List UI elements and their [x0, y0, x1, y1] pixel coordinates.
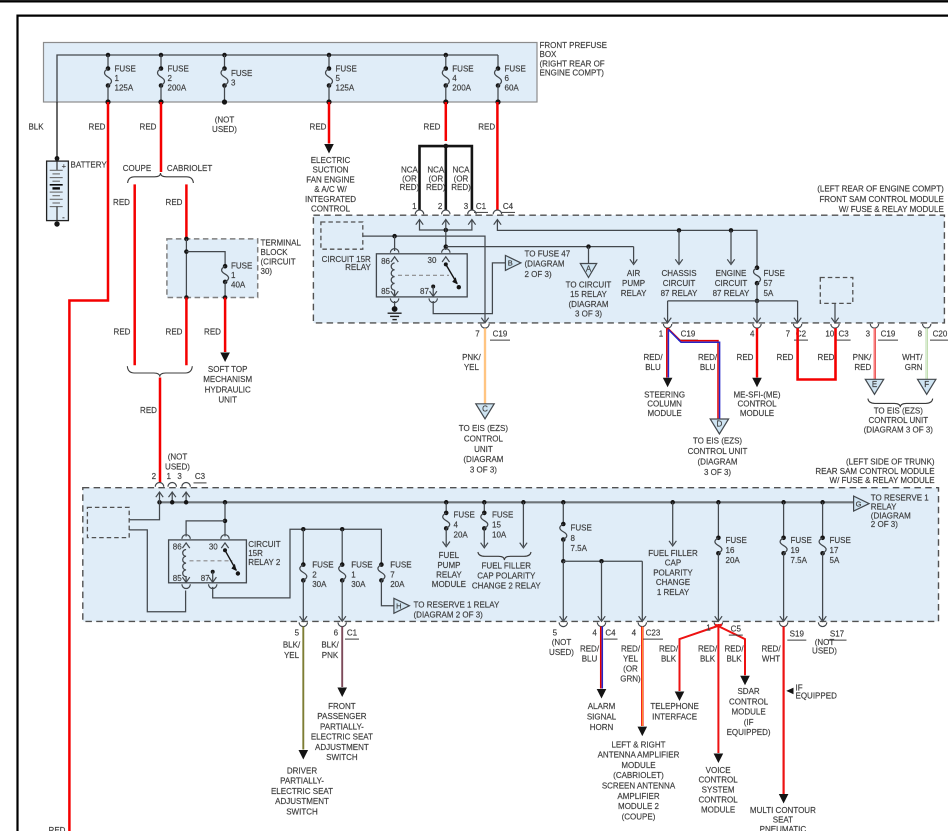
fuse F1 40A terminal block — [223, 264, 228, 269]
svg-text:FUSE: FUSE — [492, 510, 513, 519]
wire output bus to pins — [668, 300, 798, 302]
svg-text:1: 1 — [412, 202, 417, 211]
svg-text:USED): USED) — [549, 648, 574, 657]
svg-text:PARTIALLY-: PARTIALLY- — [320, 722, 364, 731]
svg-text:RED/: RED/ — [761, 644, 781, 653]
svg-text:SIGNAL: SIGNAL — [587, 712, 617, 721]
fuse F17 5A rear — [822, 502, 824, 538]
svg-text:(LEFT SIDE OF TRUNK): (LEFT SIDE OF TRUNK) — [846, 458, 935, 467]
wire RED to soft top unit — [224, 298, 227, 353]
svg-text:CAP: CAP — [665, 559, 681, 568]
node terminal block input — [184, 237, 189, 242]
svg-text:HYDRAULIC: HYDRAULIC — [205, 385, 251, 394]
svg-text:(COUPE): (COUPE) — [622, 812, 656, 821]
wire fuse15 to fuel filler relay — [483, 528, 485, 546]
wire WHT/GRN to triangle F — [926, 328, 928, 379]
svg-text:FUSE: FUSE — [231, 69, 252, 78]
svg-text:CONTROL: CONTROL — [464, 434, 504, 443]
svg-text:3: 3 — [866, 330, 871, 339]
svg-text:(IF: (IF — [744, 718, 754, 727]
svg-text:RED: RED — [777, 353, 794, 362]
triangle C — [476, 404, 494, 419]
svg-text:15 RELAY: 15 RELAY — [570, 290, 607, 299]
svg-text:(DIAGRAM: (DIAGRAM — [525, 260, 565, 269]
svg-text:200A: 200A — [452, 84, 471, 93]
svg-text:USED): USED) — [212, 125, 237, 134]
svg-text:RED): RED) — [451, 183, 471, 192]
svg-text:(CIRCUIT: (CIRCUIT — [261, 258, 296, 267]
svg-text:EQUIPPED: EQUIPPED — [796, 692, 838, 701]
svg-text:G: G — [856, 499, 862, 508]
svg-text:SYSTEM: SYSTEM — [702, 786, 735, 795]
fuse F1 front prefuse box — [105, 53, 136, 105]
svg-text:10A: 10A — [492, 530, 507, 539]
arrow SDAR — [740, 676, 750, 686]
svg-text:3: 3 — [464, 202, 469, 211]
svg-text:8: 8 — [571, 534, 576, 543]
svg-text:LEFT & RIGHT: LEFT & RIGHT — [611, 740, 665, 749]
relay link (dashed) — [398, 274, 449, 276]
connector exit rear SAM — [559, 622, 567, 626]
svg-text:W/ FUSE & RELAY MODULE: W/ FUSE & RELAY MODULE — [839, 205, 944, 214]
svg-text:ME-SFI-(ME): ME-SFI-(ME) — [733, 391, 780, 400]
svg-text:86: 86 — [381, 257, 390, 266]
connector exit front SAM — [663, 324, 671, 328]
svg-text:MULTI CONTOUR: MULTI CONTOUR — [750, 806, 816, 815]
svg-text:7: 7 — [786, 330, 791, 339]
wire RED fuse1 to bottom of page — [69, 102, 108, 831]
svg-text:1 RELAY: 1 RELAY — [657, 588, 690, 597]
svg-text:MODULE: MODULE — [701, 805, 735, 814]
brace coupe/cabriolet merge — [127, 366, 192, 377]
wire pin2 to relay 30 — [445, 220, 447, 251]
svg-text:BLK/: BLK/ — [283, 641, 301, 650]
svg-text:MODULE: MODULE — [621, 761, 655, 770]
svg-text:RED/: RED/ — [698, 353, 718, 362]
main bus rear SAM — [160, 501, 854, 503]
svg-text:D: D — [717, 420, 723, 429]
svg-text:-: - — [62, 213, 65, 222]
svg-text:(NOT: (NOT — [552, 638, 572, 647]
svg-text:RED: RED — [854, 363, 871, 372]
fuse F16 20A rear — [717, 502, 719, 538]
svg-text:200A: 200A — [168, 84, 187, 93]
relay placeholder (dashed) rear SAM — [87, 507, 129, 537]
svg-text:30A: 30A — [351, 580, 366, 589]
svg-text:7: 7 — [475, 330, 480, 339]
svg-text:RELAY 2: RELAY 2 — [248, 558, 281, 567]
svg-text:MODULE: MODULE — [731, 708, 765, 717]
relay2 link (dashed) — [190, 560, 233, 562]
wire pin4 C23 drop — [641, 561, 643, 620]
wire relay 85 to ground — [394, 290, 396, 297]
svg-text:RED: RED — [114, 327, 131, 336]
svg-text:5: 5 — [295, 629, 300, 638]
svg-text:AMPLIFIER: AMPLIFIER — [617, 792, 659, 801]
svg-text:SEAT: SEAT — [773, 816, 793, 825]
svg-text:ADJUSTMENT: ADJUSTMENT — [275, 797, 329, 806]
connector entry front SAM — [415, 210, 423, 214]
svg-text:(NOT: (NOT — [815, 638, 835, 647]
wire relay2 86 feed — [186, 521, 225, 537]
svg-text:3: 3 — [231, 79, 236, 88]
svg-text:87: 87 — [420, 287, 429, 296]
wire relay2 85 exit — [185, 576, 187, 583]
svg-text:C19: C19 — [493, 330, 508, 339]
wire pin4 C4 drop — [601, 561, 603, 620]
svg-text:RELAY: RELAY — [871, 503, 897, 512]
relay2 coil — [183, 550, 186, 577]
svg-text:CONTROL: CONTROL — [311, 205, 351, 214]
wire pin10 C3 drop — [834, 303, 836, 321]
svg-text:GRN: GRN — [905, 363, 923, 372]
svg-text:& A/C W/: & A/C W/ — [314, 185, 347, 194]
fuse F3 front prefuse box — [221, 53, 252, 105]
relay U1 circuit 15R — [376, 254, 467, 297]
svg-text:RED: RED — [478, 123, 495, 132]
svg-text:RELAY: RELAY — [436, 571, 462, 580]
svg-text:FAN ENGINE: FAN ENGINE — [306, 175, 354, 184]
svg-text:CONTROL: CONTROL — [699, 776, 739, 785]
svg-text:C20: C20 — [933, 330, 948, 339]
wire pin7 C2 drop — [797, 301, 799, 322]
svg-text:PARTIALLY-: PARTIALLY- — [280, 777, 324, 786]
svg-text:6: 6 — [505, 74, 510, 83]
svg-text:ELECTRIC SEAT: ELECTRIC SEAT — [271, 787, 333, 796]
svg-text:FUSE: FUSE — [336, 65, 357, 74]
svg-text:(OR: (OR — [428, 174, 443, 183]
fuse F57 5A — [755, 265, 760, 270]
connector entry rear SAM — [168, 483, 176, 487]
wire BLK battery feed — [56, 102, 58, 158]
svg-text:NCA: NCA — [453, 166, 471, 175]
battery B1 — [47, 156, 69, 227]
svg-text:+: + — [62, 161, 67, 170]
relay switch — [444, 262, 448, 266]
relay coil — [391, 263, 394, 290]
svg-text:5A: 5A — [830, 556, 840, 565]
wire PNK/RED to triangle E — [873, 328, 875, 379]
wire chassis circuit 87 relay drop — [678, 230, 680, 263]
svg-text:40A: 40A — [231, 280, 246, 289]
svg-text:BLK: BLK — [28, 123, 44, 132]
svg-text:5A: 5A — [764, 289, 774, 298]
fuse F8 7.5A rear — [562, 502, 564, 524]
fuse F6 front prefuse box — [495, 55, 526, 105]
triangle E — [865, 379, 883, 394]
svg-text:BLOCK: BLOCK — [261, 248, 289, 257]
svg-text:8: 8 — [918, 330, 923, 339]
svg-text:NCA: NCA — [401, 166, 419, 175]
wire pin1 C19 drop — [667, 301, 669, 322]
svg-text:RED/: RED/ — [698, 644, 718, 653]
svg-text:BLK: BLK — [700, 655, 716, 664]
wire terminal block internal — [185, 239, 187, 298]
svg-text:SUCTION: SUCTION — [313, 166, 349, 175]
svg-text:CONTROL: CONTROL — [699, 796, 739, 805]
relay placeholder (dashed) front SAM — [820, 278, 853, 304]
svg-text:AIR: AIR — [627, 269, 641, 278]
svg-text:MODULE: MODULE — [647, 409, 681, 418]
svg-text:(NOT: (NOT — [215, 116, 235, 125]
brace coupe/cabriolet split — [128, 173, 194, 183]
connector exit rear SAM — [779, 622, 787, 626]
svg-text:20A: 20A — [726, 556, 741, 565]
svg-text:FUSE: FUSE — [351, 561, 372, 570]
wire 86 entry — [394, 236, 396, 251]
connector exit front SAM — [793, 324, 801, 328]
svg-text:PUMP: PUMP — [437, 561, 460, 570]
svg-text:ALARM: ALARM — [588, 702, 616, 711]
svg-text:YEL: YEL — [623, 655, 639, 664]
triangle D — [710, 419, 728, 434]
svg-text:5: 5 — [553, 629, 558, 638]
fuse F4 front prefuse box — [442, 53, 473, 105]
wire fuse1 to pin6 — [341, 580, 343, 620]
front prefuse box — [44, 43, 538, 103]
wire to circuit15/air pump bus — [446, 246, 634, 248]
svg-text:4: 4 — [454, 521, 459, 530]
svg-text:SWITCH: SWITCH — [286, 807, 318, 816]
svg-text:ENGINE: ENGINE — [716, 269, 747, 278]
svg-text:(DIAGRAM 2 OF 3): (DIAGRAM 2 OF 3) — [414, 611, 484, 620]
svg-text:60A: 60A — [505, 84, 520, 93]
svg-text:(DIAGRAM: (DIAGRAM — [569, 300, 609, 309]
svg-text:TERMINAL: TERMINAL — [261, 239, 302, 248]
svg-text:CIRCUIT: CIRCUIT — [663, 279, 696, 288]
svg-text:MODULE: MODULE — [432, 580, 466, 589]
svg-text:RED: RED — [737, 353, 754, 362]
terminal block (circuit 30) box — [167, 239, 258, 298]
connector exit rear SAM — [714, 622, 722, 626]
wire RED coupe branch — [133, 184, 136, 365]
svg-text:20A: 20A — [390, 580, 405, 589]
svg-text:125A: 125A — [115, 84, 134, 93]
svg-text:CONTROL: CONTROL — [737, 400, 777, 409]
svg-text:(DIAGRAM: (DIAGRAM — [871, 511, 911, 520]
wire C4 bus — [497, 220, 757, 268]
svg-text:FUSE: FUSE — [454, 510, 475, 519]
svg-text:ELECTRIC: ELECTRIC — [311, 156, 351, 165]
svg-text:WHT: WHT — [762, 655, 780, 664]
svg-text:RED/: RED/ — [643, 353, 663, 362]
svg-text:YEL: YEL — [464, 363, 480, 372]
svg-text:CONTROL: CONTROL — [729, 697, 769, 706]
wire pin5 not used drop — [562, 561, 564, 620]
svg-text:86: 86 — [173, 542, 182, 551]
svg-text:MODULE 2: MODULE 2 — [618, 802, 659, 811]
svg-text:RED/: RED/ — [724, 644, 744, 653]
svg-text:POLARITY: POLARITY — [653, 568, 693, 577]
svg-text:ELECTRIC SEAT: ELECTRIC SEAT — [311, 733, 373, 742]
svg-text:7.5A: 7.5A — [791, 556, 808, 565]
svg-text:2 OF 3): 2 OF 3) — [525, 270, 552, 279]
triangle H — [394, 598, 410, 613]
svg-text:C1: C1 — [476, 202, 487, 211]
svg-text:FRONT PREFUSE: FRONT PREFUSE — [540, 41, 607, 50]
svg-text:C19: C19 — [881, 330, 896, 339]
svg-text:DRIVER: DRIVER — [287, 767, 317, 776]
svg-text:MODULE: MODULE — [740, 409, 774, 418]
top rule — [0, 0, 948, 2]
svg-text:1: 1 — [706, 624, 711, 633]
svg-text:FUSE: FUSE — [571, 524, 592, 533]
connector entry front SAM — [442, 210, 450, 214]
svg-text:TO EIS (EZS): TO EIS (EZS) — [874, 407, 924, 416]
svg-text:MECHANISM: MECHANISM — [203, 375, 252, 384]
svg-text:C3: C3 — [838, 330, 849, 339]
svg-text:BLU: BLU — [700, 363, 716, 372]
svg-text:C19: C19 — [681, 330, 696, 339]
svg-text:20A: 20A — [454, 530, 469, 539]
wire RED/YEL to antenna amplifier — [641, 627, 643, 727]
svg-text:CHANGE: CHANGE — [656, 578, 690, 587]
wire fuse2 drop — [302, 529, 304, 564]
svg-text:TO EIS (EZS): TO EIS (EZS) — [459, 424, 509, 433]
wire fuel filler cap polarity change 1 relay — [672, 502, 674, 544]
connector entry front SAM — [468, 210, 476, 214]
svg-text:BLU: BLU — [582, 655, 598, 664]
wire RED link C2 pin7 to C3 pin10 — [798, 328, 836, 379]
svg-text:CHASSIS: CHASSIS — [661, 269, 696, 278]
svg-text:RED/: RED/ — [659, 644, 679, 653]
svg-text:S19: S19 — [790, 630, 805, 639]
svg-text:4: 4 — [750, 330, 755, 339]
svg-text:4: 4 — [632, 629, 637, 638]
svg-text:E: E — [872, 380, 877, 389]
ground G1 — [392, 306, 398, 312]
wire fuse2 to pin5 — [302, 580, 304, 620]
svg-text:PNK: PNK — [322, 651, 339, 660]
brace EIS triangles E F — [868, 399, 933, 408]
svg-text:CIRCUIT: CIRCUIT — [715, 279, 748, 288]
svg-text:C5: C5 — [731, 625, 742, 634]
svg-text:87: 87 — [201, 574, 210, 583]
svg-text:(OR: (OR — [454, 174, 469, 183]
connector entry rear SAM — [155, 483, 163, 487]
svg-text:H: H — [396, 602, 401, 611]
wire relay2 30 feed — [224, 502, 226, 536]
svg-text:TO FUSE 47: TO FUSE 47 — [525, 249, 571, 258]
svg-text:UNIT: UNIT — [474, 445, 493, 454]
svg-text:CONTROL UNIT: CONTROL UNIT — [868, 416, 928, 425]
connector exit front SAM — [870, 324, 878, 328]
svg-text:FUSE: FUSE — [764, 269, 785, 278]
connector exit front SAM — [923, 324, 931, 328]
svg-text:1: 1 — [231, 271, 236, 280]
svg-text:3: 3 — [177, 472, 182, 481]
svg-text:EQUIPPED): EQUIPPED) — [727, 728, 771, 737]
svg-text:SOFT TOP: SOFT TOP — [208, 365, 248, 374]
svg-text:30A: 30A — [312, 580, 327, 589]
svg-text:RED: RED — [140, 406, 157, 415]
svg-text:10: 10 — [825, 330, 834, 339]
svg-text:PASSENGER: PASSENGER — [317, 712, 366, 721]
wire relay2 87 to fuse feed bus — [211, 570, 215, 574]
relay placeholder small (dashed) — [321, 222, 363, 249]
svg-text:WHT/: WHT/ — [902, 353, 923, 362]
svg-text:STEERING: STEERING — [644, 391, 685, 400]
arrow voice control — [714, 754, 724, 764]
svg-text:15R: 15R — [248, 549, 263, 558]
wire relay 86 feed from sub-box to pin7 C19 — [363, 236, 485, 321]
svg-text:C1: C1 — [347, 629, 358, 638]
fuse F19 7.5A rear — [783, 502, 785, 538]
svg-text:BLK/: BLK/ — [321, 641, 339, 650]
wire RED fuse5 to electric suction fan — [328, 102, 331, 144]
svg-text:(CABRIOLET): (CABRIOLET) — [613, 771, 664, 780]
fuse F7 20A rear — [379, 562, 384, 567]
svg-text:RED: RED — [818, 353, 835, 362]
svg-text:C23: C23 — [646, 629, 661, 638]
arrow IF EQUIPPED — [786, 688, 793, 695]
wire relay 87 to triangle B — [431, 285, 435, 289]
svg-text:RED: RED — [166, 198, 183, 207]
svg-text:RED: RED — [49, 826, 66, 831]
svg-text:(NOT: (NOT — [168, 452, 188, 461]
connector entry rear SAM — [182, 482, 190, 486]
svg-text:19: 19 — [791, 546, 800, 555]
svg-text:RED: RED — [424, 123, 441, 132]
triangle A — [580, 264, 596, 278]
svg-text:FUSE: FUSE — [726, 536, 747, 545]
wire engine circuit 87 relay drop — [730, 230, 732, 263]
wire BLK/YEL to driver seat switch — [302, 627, 304, 750]
svg-text:BLK: BLK — [726, 655, 742, 664]
relay U2 circuit 15R relay 2 — [169, 540, 247, 583]
svg-text:FRONT SAM CONTROL MODULE: FRONT SAM CONTROL MODULE — [819, 195, 943, 204]
svg-text:1: 1 — [351, 570, 356, 579]
battery feed bus wire — [57, 55, 498, 102]
svg-text:CHANGE 2 RELAY: CHANGE 2 RELAY — [472, 581, 541, 590]
svg-text:(DIAGRAM 3 OF 3): (DIAGRAM 3 OF 3) — [864, 426, 934, 435]
node NCA bracket junction — [443, 144, 448, 149]
fuse F2 30A rear — [301, 562, 306, 567]
svg-text:FUSE: FUSE — [168, 65, 189, 74]
svg-text:7: 7 — [390, 570, 395, 579]
svg-text:FUEL FILLER: FUEL FILLER — [482, 562, 532, 571]
svg-text:RED: RED — [89, 123, 106, 132]
svg-text:2: 2 — [438, 202, 443, 211]
brace fuel filler cap polarity change 2 relay — [478, 552, 531, 560]
svg-text:FUSE: FUSE — [791, 536, 812, 545]
svg-text:F: F — [924, 380, 929, 389]
svg-text:15: 15 — [492, 521, 501, 530]
svg-text:125A: 125A — [336, 84, 355, 93]
svg-text:SDAR: SDAR — [737, 687, 759, 696]
wire fuse57 output — [756, 283, 758, 301]
wire fuse8 output bus — [562, 540, 564, 562]
connector exit rear SAM — [597, 622, 605, 626]
svg-text:CONTROL UNIT: CONTROL UNIT — [688, 447, 748, 456]
svg-text:17: 17 — [830, 546, 839, 555]
svg-text:REAR SAM CONTROL MODULE: REAR SAM CONTROL MODULE — [815, 467, 934, 476]
svg-text:3 OF 3): 3 OF 3) — [704, 468, 731, 477]
wire RED cabriolet branch — [185, 184, 188, 239]
svg-text:2: 2 — [168, 74, 173, 83]
fuse F1 30A rear — [340, 562, 345, 567]
svg-text:(DIAGRAM: (DIAGRAM — [698, 457, 738, 466]
rear SAM control module box — [83, 488, 939, 622]
svg-text:FUSE: FUSE — [231, 261, 252, 270]
svg-text:30: 30 — [209, 542, 218, 551]
svg-text:30: 30 — [428, 256, 437, 265]
triangle B — [505, 255, 521, 270]
svg-text:RED: RED — [166, 327, 183, 336]
connector exit rear SAM — [299, 622, 307, 626]
svg-text:FUSE: FUSE — [830, 536, 851, 545]
svg-text:RED): RED) — [426, 183, 446, 192]
